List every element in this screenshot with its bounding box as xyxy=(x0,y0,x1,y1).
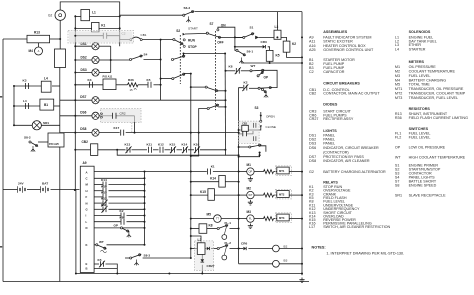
wire ladder row G xyxy=(94,208,102,210)
wire CR27 branch xyxy=(201,254,203,259)
relay contact K15 row H xyxy=(101,184,107,193)
switch S2 second pole xyxy=(171,55,185,60)
wire ladder row H xyxy=(94,190,102,192)
wire C2 to CB1 xyxy=(107,36,130,40)
svg-text:DS6: DS6 xyxy=(309,146,316,150)
wire K5 coil bottom stub xyxy=(269,61,271,63)
svg-text:MT2: MT2 xyxy=(279,193,285,197)
capacitor CR2 in heater box xyxy=(113,111,126,118)
svg-text:DS7: DS7 xyxy=(80,95,86,99)
wire M3 row xyxy=(239,218,247,220)
ground at right bus bottom xyxy=(299,278,304,283)
wire S8-2 to A25 xyxy=(38,141,48,143)
float bulb of FL-1 xyxy=(222,227,227,240)
solenoid L3 ether xyxy=(274,25,281,39)
wire B1 to vertical xyxy=(54,105,60,107)
svg-text:CLOSE: CLOSE xyxy=(266,125,277,129)
svg-text:HIGH COOLANT TEMPERATURE: HIGH COOLANT TEMPERATURE xyxy=(409,156,466,160)
fuel pump motor B2 xyxy=(273,244,288,252)
svg-text:M1: M1 xyxy=(247,163,252,167)
squiggle of WT switch xyxy=(101,250,107,253)
wire left vertical below rectifier box xyxy=(59,68,61,134)
wire R36 to K5 contact xyxy=(138,84,148,86)
terminal F of A9 xyxy=(86,195,88,199)
svg-text:D: D xyxy=(86,226,88,230)
wire K1 right xyxy=(99,27,120,29)
wire CB1 to S2 node xyxy=(142,39,173,41)
wire ladder row L out xyxy=(127,221,145,223)
ground below M1 xyxy=(248,177,253,182)
panel lamp DS2 xyxy=(81,56,100,64)
svg-text:INDICATOR, CIRCUIT BREAKER: INDICATOR, CIRCUIT BREAKER xyxy=(323,146,379,150)
wire K14 coil out xyxy=(225,181,238,183)
relay contact K11 undervoltage xyxy=(147,142,153,152)
svg-text:WT: WT xyxy=(248,193,252,197)
wire CB2 left xyxy=(75,149,90,151)
wire battery interconnect xyxy=(27,189,41,191)
wire right bus vertical xyxy=(301,12,303,276)
wire ladder row M out xyxy=(109,184,145,186)
switch S7 OFF label xyxy=(217,41,223,45)
value label 15 ohm of R36 xyxy=(130,88,137,92)
svg-text:K11: K11 xyxy=(147,142,153,146)
shaded fill of A16 region xyxy=(101,109,141,122)
terminal S3 common xyxy=(260,120,262,122)
svg-text:OP: OP xyxy=(114,224,118,228)
wire K2 coil bottom to right bus xyxy=(287,52,303,57)
svg-text:K16: K16 xyxy=(194,142,200,146)
svg-text:K5: K5 xyxy=(98,258,102,262)
wire L1 row to S6-3 xyxy=(120,14,183,16)
terminal RUN of S2 xyxy=(183,39,185,41)
svg-text:P/O A25: P/O A25 xyxy=(49,142,59,146)
transducer MT1 xyxy=(277,167,289,174)
svg-text:S3: S3 xyxy=(255,106,259,110)
svg-text:OIL PRESSURE: OIL PRESSURE xyxy=(409,65,437,69)
wire contactor bus x238 xyxy=(238,121,240,264)
svg-text:M1: M1 xyxy=(395,65,400,69)
svg-text:MT3: MT3 xyxy=(279,216,285,220)
relay contact K14 overload xyxy=(182,142,189,153)
junction contactor aux a xyxy=(259,152,261,154)
wire DS1 left xyxy=(75,45,92,47)
wire S1 row to K2 coil xyxy=(277,37,286,41)
wire resistor to MT2 xyxy=(274,194,277,196)
wire breaker chain2 xyxy=(153,149,159,151)
wire lamp bus vertical x75 xyxy=(74,15,76,189)
wire S4 bus down xyxy=(160,40,162,101)
wire ladder row I out xyxy=(127,215,145,217)
contactor aux switch xyxy=(249,144,262,148)
terminal H of A9 xyxy=(86,189,88,193)
solenoid L1 engine fuel xyxy=(81,10,96,21)
wire ladder row K xyxy=(94,244,96,246)
relay contact K8 row L xyxy=(120,215,125,224)
meter M1 oil pressure xyxy=(247,163,255,175)
svg-text:K11: K11 xyxy=(101,203,107,207)
svg-text:CR27: CR27 xyxy=(309,117,318,121)
svg-text:DS6: DS6 xyxy=(80,110,86,114)
diode CR27 rectifier assy xyxy=(201,259,215,268)
svg-text:B3: B3 xyxy=(284,258,288,262)
marker CLOSE of S3 xyxy=(260,125,276,129)
terminal L of A9 xyxy=(86,220,88,224)
relay contact K3 crank xyxy=(23,79,29,89)
svg-text:GOVERNOR CONTROL UNIT: GOVERNOR CONTROL UNIT xyxy=(323,48,374,52)
rheostat of MT3 xyxy=(264,217,274,221)
actuator ground after OP switch xyxy=(264,92,268,98)
svg-text:S6-3: S6-3 xyxy=(184,6,191,10)
wire pole2 S7 out xyxy=(217,90,225,92)
wire DS3 left xyxy=(75,72,92,74)
wire ladder row E xyxy=(94,263,99,265)
svg-text:L2: L2 xyxy=(198,238,202,242)
capacitor C2 xyxy=(103,32,125,39)
wire S2 pole2 riser xyxy=(183,54,185,56)
contact L4 starter solenoid aux xyxy=(23,99,29,109)
arm to ground of OP switch xyxy=(261,88,266,92)
circuit breaker CB1 xyxy=(130,33,147,40)
zone tick mark upper left edge xyxy=(0,96,2,98)
wire S3 close to box xyxy=(248,127,260,130)
starter motor B1 xyxy=(40,99,54,110)
wire L3 riser xyxy=(276,12,278,31)
svg-text:E: E xyxy=(86,262,88,266)
wire row E contact out xyxy=(106,264,118,274)
svg-text:K8: K8 xyxy=(229,65,233,69)
wire L1 left xyxy=(75,15,81,17)
svg-text:M5: M5 xyxy=(207,213,212,217)
wire left vertical from A25 to bottom rail xyxy=(59,147,61,282)
terminal G of A9 xyxy=(86,208,88,212)
wire row K switch out xyxy=(107,244,145,246)
svg-text:RECTIFIER ASSY: RECTIFIER ASSY xyxy=(323,117,354,121)
svg-text:OPEN: OPEN xyxy=(266,115,275,119)
relay K1 stop-run coil xyxy=(92,22,106,32)
wire K14 coil row left xyxy=(191,181,219,183)
svg-text:WT: WT xyxy=(99,240,104,244)
wire contactor lower switch feed xyxy=(239,146,249,148)
wire DS3 right xyxy=(99,72,111,74)
wire SR1 right xyxy=(41,124,59,126)
svg-text:L3: L3 xyxy=(275,25,279,29)
switch OP oil pressure contactor xyxy=(258,87,272,90)
wire K1 left xyxy=(75,27,91,29)
wire bottom border rail xyxy=(3,281,309,283)
wire DS2 left xyxy=(75,59,92,61)
svg-text:L4: L4 xyxy=(395,47,399,51)
relay contact K16 permissive paralleling xyxy=(194,142,201,153)
wire DS6 to heater cap xyxy=(99,115,112,117)
svg-text:B: B xyxy=(86,267,88,271)
svg-text:1. INTERPRET DRAWING PER MIL-S: 1. INTERPRET DRAWING PER MIL-STD-130. xyxy=(326,251,404,255)
terminal K of A9 xyxy=(86,243,88,247)
svg-text:STARTER: STARTER xyxy=(409,47,426,51)
meter M4 battery charging ammeter xyxy=(29,47,43,55)
svg-text:SR1: SR1 xyxy=(395,193,402,197)
svg-text:K2: K2 xyxy=(292,42,296,46)
terminal A of A9 xyxy=(86,170,88,174)
wire ladder row F out xyxy=(109,196,145,198)
float switch FL-2 xyxy=(217,241,231,250)
wire ladder row H out xyxy=(109,190,145,192)
wire S1 row xyxy=(235,36,243,38)
wire starter contact row K3-L4 xyxy=(14,85,41,87)
static exciter P/O A11 box xyxy=(103,75,117,90)
relay contact K5 row E xyxy=(98,258,106,268)
wire K1 contact row xyxy=(191,171,207,173)
wire M1 row xyxy=(239,171,247,173)
wire ladder row B xyxy=(94,268,117,270)
svg-text:DS3: DS3 xyxy=(81,68,87,72)
wire FL-1 out xyxy=(230,228,239,230)
wire S2 poles link row xyxy=(184,53,226,55)
wire K8 coil row xyxy=(191,228,199,230)
wire SR1 left xyxy=(14,124,32,126)
wire K8 contact to WT switch xyxy=(241,70,250,72)
switch S3 label xyxy=(255,106,259,110)
svg-text:SOLENOIDS: SOLENOIDS xyxy=(409,30,431,34)
wire pole2 feed xyxy=(161,78,172,80)
wire S3 column xyxy=(260,112,262,121)
heater control P/O A16 shaded region xyxy=(101,109,142,123)
svg-text:K14: K14 xyxy=(101,178,107,182)
wire DS8 long row xyxy=(126,132,239,134)
notes block xyxy=(312,246,405,256)
wire C2 row xyxy=(75,35,103,37)
svg-text:K2: K2 xyxy=(120,209,124,213)
wire lamp bus to S4 row xyxy=(111,59,130,61)
actuator ground at OP row D xyxy=(127,232,131,238)
svg-text:COOLANT TEMPERATURE: COOLANT TEMPERATURE xyxy=(409,70,456,74)
wire right block bus x236 xyxy=(234,37,236,46)
terminal M of A9 xyxy=(86,183,89,187)
wire ladder row C xyxy=(94,177,144,179)
svg-text:C: C xyxy=(86,177,88,181)
wire MT1 to right bus xyxy=(288,171,302,173)
wire R13 to G2 node xyxy=(50,38,61,40)
svg-text:WT: WT xyxy=(395,156,401,160)
wire L2 to diode xyxy=(205,248,207,250)
terminal N of A9 xyxy=(86,201,88,205)
day tank shaded box xyxy=(195,241,214,271)
wire contactor cap branch xyxy=(239,133,243,135)
svg-text:B1: B1 xyxy=(44,103,48,107)
svg-text:C2: C2 xyxy=(309,70,314,74)
wire K5 contact to bus xyxy=(154,84,161,86)
switch S2 third pole xyxy=(172,73,186,80)
gray link of A16 box to K17 row xyxy=(131,123,133,133)
diode after L2 xyxy=(207,247,210,250)
svg-text:K12: K12 xyxy=(158,142,164,146)
wire R13 row xyxy=(3,38,27,40)
svg-text:FIELD FLASH CURRENT LIMITING: FIELD FLASH CURRENT LIMITING xyxy=(409,116,468,120)
wire ladder row G out xyxy=(109,208,145,210)
svg-text:STOP: STOP xyxy=(188,45,197,49)
legend parts list xyxy=(309,30,468,229)
wire starter motor row xyxy=(14,105,40,107)
switch S2 run-stop contact xyxy=(173,38,184,44)
svg-text:CAPACITOR: CAPACITOR xyxy=(323,70,345,74)
transducer MT3 xyxy=(277,214,289,221)
wire ladder row D out xyxy=(123,227,145,229)
svg-text:M4: M4 xyxy=(29,49,34,53)
svg-text:G2: G2 xyxy=(48,14,52,18)
transducer MT3 shaded box xyxy=(275,213,291,223)
svg-text:K14: K14 xyxy=(182,142,188,146)
switch S6-3 engine speed xyxy=(183,6,194,16)
relay contact K1 run xyxy=(207,164,215,174)
switch S2 label xyxy=(176,29,180,33)
wire K1 contact out xyxy=(213,171,239,173)
svg-text:START: START xyxy=(188,27,198,31)
wire B3 row xyxy=(239,263,273,265)
wire MT2 to right bus xyxy=(288,194,302,196)
svg-text:S8: S8 xyxy=(395,184,400,188)
svg-text:PANEL: PANEL xyxy=(323,142,335,146)
float switch FL-1 xyxy=(217,221,231,229)
wire breaker chain seg1 xyxy=(96,149,125,151)
svg-text:METERS: METERS xyxy=(409,60,425,64)
wire K2 contact row feed xyxy=(239,88,243,122)
pressure switch OP row D xyxy=(114,224,130,233)
wire ladder row N out xyxy=(109,202,145,204)
wire breaker chain xyxy=(132,149,148,151)
wire S7 on to K1 node xyxy=(218,27,235,37)
svg-text:L4: L4 xyxy=(44,77,48,81)
svg-text:RELAYS: RELAYS xyxy=(323,181,338,185)
label STOP of S2 xyxy=(188,45,197,49)
svg-text:K14: K14 xyxy=(210,176,216,180)
wire mid bus x190 xyxy=(190,74,192,259)
dashed linkage switch S2 xyxy=(179,35,181,84)
switch S7 third pole xyxy=(207,104,219,109)
battery BAT xyxy=(41,181,49,192)
resistor R13 shunt xyxy=(27,31,50,43)
switch S7 label xyxy=(210,22,214,26)
wire chain end to contactor bus xyxy=(225,150,238,155)
relay contact K8 fuel level xyxy=(229,65,241,75)
svg-text:B2: B2 xyxy=(284,244,288,248)
wire DS1 right xyxy=(99,45,111,47)
svg-text:MT1: MT1 xyxy=(279,169,285,173)
svg-text:FL2: FL2 xyxy=(395,135,401,139)
switch S8-2 engine speed xyxy=(24,136,38,147)
resistor R36 field flash xyxy=(128,78,139,87)
relay contact K3 field flash row xyxy=(88,78,93,88)
svg-text:SWITCHES: SWITCHES xyxy=(409,127,429,131)
svg-text:A: A xyxy=(38,49,40,53)
wire S2 start row xyxy=(185,32,207,35)
wire M5 out xyxy=(221,218,238,220)
relay contact K12 row N xyxy=(101,197,108,207)
relay contact K2 row I xyxy=(120,209,125,218)
relay K2 overvoltage coil xyxy=(283,41,296,52)
protection bypass lamp DS7 xyxy=(80,95,99,104)
actuator of S6-1 xyxy=(239,58,243,64)
svg-text:M2: M2 xyxy=(395,70,400,74)
wire battery left lead xyxy=(3,189,18,191)
svg-text:NOTES:: NOTES: xyxy=(312,246,326,250)
relay K15 reverse power coil xyxy=(200,189,214,201)
slave receptacle SR1 xyxy=(32,121,49,130)
svg-text:L4: L4 xyxy=(23,99,27,103)
wire second pole riser xyxy=(183,54,185,57)
svg-text:WT: WT xyxy=(251,64,256,68)
svg-text:S8-2: S8-2 xyxy=(24,136,31,140)
svg-text:DS2: DS2 xyxy=(81,56,87,60)
switch S6-1 engine speed xyxy=(236,49,253,56)
svg-text:24V: 24V xyxy=(18,181,24,185)
temperature switch WT row K xyxy=(96,240,107,249)
wire breaker chain5 xyxy=(188,149,194,151)
svg-text:LIGHTS: LIGHTS xyxy=(323,129,337,133)
static exciter P/O A11 shaded region xyxy=(68,31,134,44)
relay contact K13 short circuit xyxy=(125,142,132,153)
svg-text:L17: L17 xyxy=(309,225,315,229)
wire heater to K17 row xyxy=(134,116,136,133)
svg-text:K5: K5 xyxy=(276,53,280,57)
wire CR27 to common xyxy=(201,265,203,274)
rectifier assembly box xyxy=(55,49,66,68)
wire CR6 branch xyxy=(239,248,244,250)
svg-text:RUN: RUN xyxy=(188,39,196,43)
terminal a of DS6 heater tap xyxy=(101,113,103,115)
meter M3 fuel level xyxy=(247,210,255,222)
terminal ON of S7 xyxy=(217,29,219,31)
transducer MT2 xyxy=(277,191,289,198)
svg-text:K15: K15 xyxy=(101,184,107,188)
svg-text:S8-3: S8-3 xyxy=(144,253,151,257)
governor control unit P/O A25 xyxy=(48,133,64,147)
wire CR3 row xyxy=(235,46,263,48)
svg-text:RESISTORS: RESISTORS xyxy=(409,107,431,111)
svg-text:H: H xyxy=(86,189,88,193)
svg-text:DS3: DS3 xyxy=(309,142,316,146)
wire contactor internal xyxy=(247,131,253,134)
relay K14 overload coil xyxy=(210,176,225,188)
wire pole2 S7 feed xyxy=(191,86,206,88)
wire ladder row A xyxy=(94,171,144,173)
svg-text:OP: OP xyxy=(395,146,401,150)
wire M5 row left xyxy=(191,218,214,220)
wire MT3 to right bus xyxy=(288,218,302,220)
rheostat of MT1 xyxy=(264,170,274,174)
svg-text:CB2: CB2 xyxy=(309,92,316,96)
wire chain bypass lower xyxy=(117,150,225,155)
svg-text:R13: R13 xyxy=(34,31,40,35)
wire diode to FL-2 xyxy=(211,248,217,250)
svg-text:(CONTACTOR): (CONTACTOR) xyxy=(323,150,348,154)
capacitor in contactor box xyxy=(243,131,247,136)
wire ladder bus x145 xyxy=(144,172,146,245)
svg-text:TRANSDUCER, FUEL LEVEL: TRANSDUCER, FUEL LEVEL xyxy=(409,96,458,100)
wire S1 out to L3 xyxy=(259,36,278,38)
relay contact K5 field flash xyxy=(147,78,152,88)
transducer MT1 shaded box xyxy=(275,166,291,176)
terminal C of A9 xyxy=(86,177,88,181)
switch S7 battle short contact xyxy=(206,32,221,38)
contactor CB2 operating box xyxy=(239,121,259,143)
terminal E of A9 xyxy=(86,262,88,266)
svg-text:CR2: CR2 xyxy=(120,111,126,115)
wire S8-3 row stub xyxy=(125,257,130,259)
wire S6-1 K5 output row xyxy=(242,62,302,64)
svg-text:M2: M2 xyxy=(247,187,252,191)
panel lamp DS1 xyxy=(81,42,100,50)
svg-text:CR27: CR27 xyxy=(207,264,215,268)
wire resistor to MT3 xyxy=(274,218,277,220)
